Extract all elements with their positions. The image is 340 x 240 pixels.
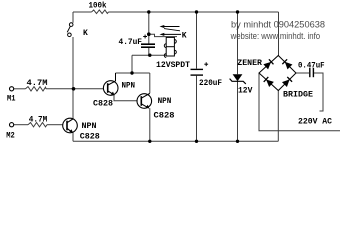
wire Q1 emitter to Q2 base [114, 95, 137, 101]
resistor 4.7M lower zigzag [28, 123, 47, 127]
wire M2 lead [14, 124, 28, 126]
relay contact upper fixed line [162, 26, 180, 28]
bridge diode top-right [282, 59, 292, 69]
svg-text:C828: C828 [154, 112, 175, 121]
zener diode 12V triangle [233, 74, 243, 81]
svg-text:by minhdt 0904250638: by minhdt 0904250638 [231, 20, 325, 30]
zener cathode bar with ticks [230, 79, 246, 84]
node dot ground / Q2 emitter [148, 140, 151, 143]
wire Q3 emitter drop [72, 133, 74, 142]
svg-text:220V AC: 220V AC [298, 118, 332, 127]
resistor 4.7M upper zigzag [26, 87, 47, 91]
svg-text:K: K [83, 29, 88, 38]
transistor Q1 C828 [103, 73, 118, 95]
wire switch upper lead [72, 12, 74, 23]
svg-text:website: www.minhdt. info: website: www.minhdt. info [230, 31, 320, 41]
node dot collector line [130, 71, 133, 74]
relay contact common arrowhead [160, 33, 165, 36]
svg-text:K: K [182, 32, 187, 41]
bridge diode bottom-right [282, 77, 292, 87]
capacitor 4.7uF plates [141, 43, 155, 45]
switch K top contact circle [69, 23, 73, 27]
transistor Q3 C828 [63, 118, 78, 133]
wire zener branch lower [237, 81, 239, 141]
svg-text:220uF: 220uF [199, 79, 222, 88]
node dot coil bottom / cap [148, 54, 151, 57]
capacitor 220uF plates [191, 69, 204, 70]
wire zener branch upper [237, 12, 239, 74]
wire bridge left to AC line [259, 73, 340, 131]
wire M1 to Q1 base [46, 88, 103, 90]
node dot ground / zener [236, 140, 239, 143]
node dot top rail / 4.7uF [147, 10, 150, 13]
bridge rectifier diamond [259, 56, 296, 91]
capacitor 0.47uF plates [309, 68, 310, 77]
svg-text:12VSPDT: 12VSPDT [156, 61, 190, 70]
relay contact upper arrowhead [160, 25, 165, 28]
wire 4.7uF top branch [148, 12, 150, 44]
svg-text:4.7M: 4.7M [27, 79, 48, 88]
svg-text:4.7M: 4.7M [29, 116, 48, 125]
wire Q1 collector to Q2 collector line [116, 72, 150, 74]
wire relay bottom node vertical [131, 55, 133, 73]
svg-text:C828: C828 [93, 99, 113, 108]
relay coil 12VSPDT body [164, 37, 176, 57]
node dot M1 / switch column [72, 87, 76, 91]
svg-text:NPN: NPN [82, 122, 97, 131]
wire relay coil bottom line [132, 54, 166, 56]
wire Q2 collector riser [149, 73, 151, 93]
plus sign 220uF [204, 63, 208, 65]
wire bridge bottom to ground rail [277, 91, 279, 142]
wire Q2 emitter drop [149, 108, 151, 141]
node dot ground / 220uF [195, 140, 198, 143]
wire top rail right segment [109, 11, 279, 13]
wire bottom ground rail [73, 140, 278, 142]
relay contact moving arm [164, 29, 180, 31]
wire 220uF branch upper [196, 12, 198, 69]
svg-text:NPN: NPN [158, 97, 172, 106]
wire 4.7uF bottom lead [148, 48, 150, 55]
svg-text:BRIDGE: BRIDGE [283, 91, 313, 100]
wire bridge right to 0.47uF [296, 72, 309, 74]
node dot relay top / cap plus [147, 32, 151, 36]
bridge diode top-left [263, 59, 273, 69]
terminal M2 circle [10, 123, 14, 127]
plus sign 4.7uF [143, 36, 147, 38]
wire top rail left segment [73, 11, 92, 13]
node dot top rail / 220uF [195, 10, 198, 13]
terminal M1 circle [10, 87, 14, 91]
svg-text:C828: C828 [80, 132, 100, 141]
bridge diode bottom-left [264, 77, 274, 87]
node dot top rail / zener [236, 10, 239, 13]
wire left column switch to Q3 collector [72, 37, 74, 119]
svg-text:M2: M2 [6, 132, 15, 141]
svg-text:12V: 12V [238, 86, 253, 95]
wire M2 to Q3 base [47, 124, 63, 126]
wire M1 lead [14, 88, 26, 90]
svg-text:NPN: NPN [122, 82, 136, 91]
resistor 100k zigzag [92, 10, 109, 14]
switch K bottom contact circle [68, 33, 72, 37]
svg-text:ZENER: ZENER [237, 59, 262, 68]
wire 0.47uF to AC terminal hook [314, 73, 323, 111]
svg-text:100k: 100k [89, 2, 107, 11]
switch K lever [67, 26, 70, 32]
svg-text:4.7uF: 4.7uF [119, 38, 143, 47]
wire relay coil top feed [149, 34, 177, 36]
wire right drop to bridge top [278, 12, 280, 56]
svg-text:M1: M1 [7, 95, 16, 104]
transistor Q2 C828 [137, 93, 152, 108]
svg-text:0.47uF: 0.47uF [298, 61, 325, 70]
wire 220uF branch lower [196, 76, 198, 142]
relay contact common line [163, 33, 182, 35]
